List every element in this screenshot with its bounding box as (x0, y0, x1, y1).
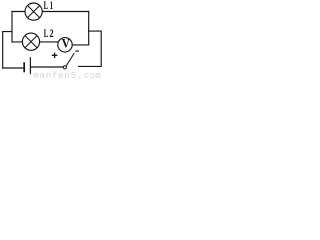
svg-text:1: 1 (50, 0, 53, 12)
svg-text:V: V (62, 36, 71, 51)
svg-text:L: L (44, 28, 49, 40)
svg-text:2: 2 (49, 28, 53, 40)
svg-text:L: L (44, 0, 49, 12)
svg-text:com: com (84, 71, 101, 79)
svg-text:manfen5.: manfen5. (33, 71, 83, 79)
